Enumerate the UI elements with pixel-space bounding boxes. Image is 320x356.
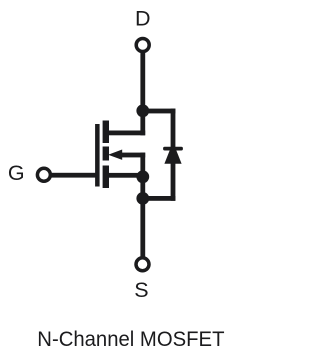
terminal G bbox=[37, 168, 50, 181]
terminal D bbox=[136, 39, 149, 52]
wire drain node down to channel connection bbox=[140, 110, 145, 135]
wire diode anode vertical bbox=[171, 163, 176, 201]
wire body arrow tail bbox=[119, 153, 145, 158]
svg-text:S: S bbox=[134, 278, 148, 302]
diode D1 anode triangle bbox=[164, 150, 181, 163]
svg-text:N-Channel MOSFET: N-Channel MOSFET bbox=[37, 327, 224, 351]
wire source node to lower node bbox=[140, 176, 145, 257]
terminal S bbox=[136, 258, 149, 271]
wire diode branch to source node bbox=[140, 196, 175, 201]
mosfet Q1 gate bar bbox=[95, 124, 100, 187]
mosfet Q1 source channel stub bbox=[103, 166, 109, 189]
wire gate lead bbox=[51, 173, 97, 178]
mosfet Q1 drain channel stub bbox=[103, 121, 109, 144]
wire drain node to diode branch bbox=[140, 109, 175, 114]
junction source node upper bbox=[136, 170, 149, 183]
wire diode cathode vertical bbox=[171, 109, 176, 149]
svg-text:G: G bbox=[8, 161, 25, 185]
mosfet Q1 body arrow bbox=[108, 150, 122, 160]
mosfet Q1 body channel stub bbox=[103, 147, 109, 161]
svg-text:D: D bbox=[135, 6, 151, 30]
junction source node lower bbox=[136, 192, 149, 205]
junction drain node bbox=[136, 104, 149, 117]
wire body to source node vertical bbox=[140, 153, 145, 178]
wire source stub to node bbox=[109, 173, 143, 178]
diode D1 cathode bar bbox=[163, 147, 183, 151]
wire drain to MOSFET top stub bbox=[109, 131, 145, 136]
wire drain terminal to node bbox=[140, 53, 145, 113]
